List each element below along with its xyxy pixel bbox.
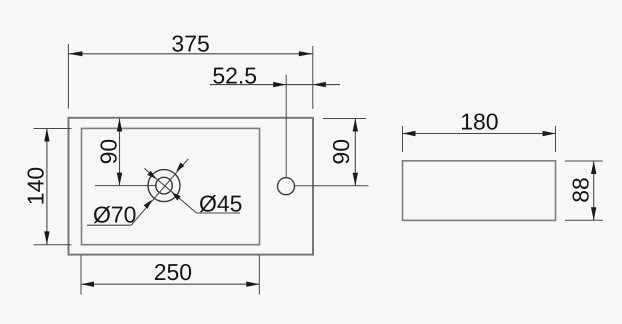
drain centre line <box>95 185 157 187</box>
faucet hole circle <box>278 178 295 195</box>
svg-text:90: 90 <box>96 139 122 165</box>
dimension 180 <box>403 109 556 153</box>
inner bowl rectangle (top view) <box>82 128 260 244</box>
dimension 90 (inner, to drain centre) <box>96 119 123 186</box>
drain outer circle Ø70 <box>148 170 180 202</box>
outer rim rectangle (top view) <box>69 118 314 255</box>
svg-text:90: 90 <box>328 139 354 165</box>
svg-text:140: 140 <box>22 167 48 205</box>
dimension 90 (right, to faucet centre) <box>295 119 369 186</box>
dimension 250 <box>81 255 259 295</box>
svg-text:Ø45: Ø45 <box>199 190 242 216</box>
leader Ø45 diagonal line <box>144 168 242 216</box>
dimension 88 <box>565 161 603 220</box>
dimension 140 <box>22 129 71 245</box>
drain inner circle Ø45 <box>156 177 173 194</box>
svg-text:250: 250 <box>154 259 192 285</box>
dimension 52.5 <box>210 63 340 178</box>
svg-text:52.5: 52.5 <box>212 63 257 89</box>
svg-text:375: 375 <box>171 31 209 57</box>
side view rectangle <box>403 161 556 221</box>
dimension 375 <box>68 31 312 109</box>
svg-text:Ø70: Ø70 <box>93 201 136 227</box>
leader Ø70 diagonal line <box>87 159 188 228</box>
svg-text:180: 180 <box>460 109 498 135</box>
svg-text:88: 88 <box>567 177 593 203</box>
